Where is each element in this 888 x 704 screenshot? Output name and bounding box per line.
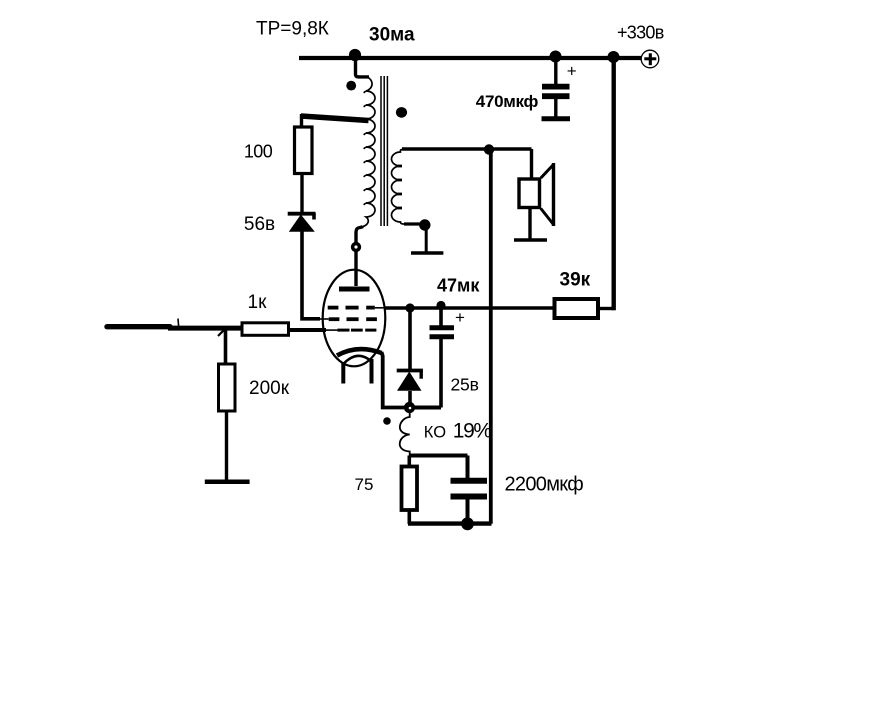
- ground below 470uF: [542, 116, 571, 121]
- wire secondary top to speaker: [402, 147, 532, 150]
- resistor 75: [402, 467, 418, 511]
- wire junction to 47uF bottom: [410, 406, 442, 410]
- tube heater legs: [341, 362, 345, 384]
- wire bottom rail: [408, 521, 492, 525]
- capacitor 470uF: [542, 57, 570, 117]
- transformer core: [380, 76, 382, 226]
- wire long vertical right: [489, 150, 493, 524]
- tube V1 envelope: [323, 270, 386, 367]
- zener diode 25v: [397, 308, 423, 403]
- resistor 1k: [242, 323, 289, 336]
- wire thin lead 1k to row3: [325, 329, 337, 331]
- node junction zener 25v: [405, 303, 414, 312]
- svg-text:+: +: [567, 62, 577, 81]
- tube heater arch: [343, 356, 371, 364]
- svg-text:39к: 39к: [560, 270, 591, 291]
- wire top rail +330v: [299, 56, 642, 60]
- node junction rail/39k branch: [608, 51, 620, 63]
- svg-text:200к: 200к: [249, 378, 290, 399]
- svg-text:+330в: +330в: [617, 23, 664, 43]
- transformer T1 secondary winding: [392, 150, 406, 225]
- node junction rail/470uF: [550, 51, 562, 63]
- wire down to 75: [407, 456, 411, 467]
- capacitor 47uF: [430, 308, 455, 408]
- svg-text:470мкф: 470мкф: [476, 92, 539, 111]
- node junction bottom: [461, 517, 474, 530]
- wire 75 to bottom: [407, 510, 411, 524]
- tube plate: [339, 287, 370, 292]
- tube grid row 1 dashes: [328, 306, 375, 310]
- svg-text:19%: 19%: [453, 420, 492, 443]
- wire zener down to grid wire: [302, 231, 320, 319]
- phase dot secondary: [396, 107, 407, 118]
- ground below 200k: [205, 479, 250, 484]
- wire input to 200k: [224, 328, 228, 364]
- zener diode 56v: [288, 213, 316, 232]
- arrow mark at junction: [218, 329, 225, 336]
- resistor 100: [295, 127, 313, 174]
- node junction secondary bottom: [419, 219, 430, 230]
- terminal +330v plus circle: [641, 50, 659, 68]
- speaker LS1: [519, 163, 554, 226]
- ground below speaker: [514, 238, 547, 242]
- node donut plate wire: [351, 242, 361, 252]
- wire thin lead 56v branch to row2: [318, 318, 329, 320]
- svg-text:75: 75: [355, 475, 374, 494]
- node junction 47uF: [436, 301, 445, 310]
- wire speaker to ground: [528, 209, 531, 240]
- phase dot KO: [383, 417, 391, 425]
- node junction speaker line: [484, 144, 494, 154]
- inductor KO coil: [400, 412, 410, 456]
- node junction rail/primary: [349, 49, 361, 61]
- wire rail to primary top: [356, 57, 370, 77]
- resistor 39k: [555, 299, 599, 318]
- node donut cathode junction: [404, 402, 415, 413]
- wire primary bottom to plate node: [356, 227, 363, 287]
- wire 100 to zener: [300, 174, 303, 213]
- wire 39k to +330v line: [598, 307, 614, 310]
- ground below secondary: [425, 225, 428, 252]
- svg-text:25в: 25в: [451, 375, 479, 395]
- wire top of 75/2200uF: [409, 454, 467, 458]
- wire 200k to ground: [225, 411, 228, 480]
- capacitor 2200uF: [451, 456, 488, 525]
- wire cathode output: [384, 306, 553, 309]
- wire secondary bottom: [404, 222, 422, 225]
- svg-text:КО: КО: [424, 423, 446, 441]
- wire thin lead row1 to output: [375, 307, 385, 309]
- tube cathode arc: [337, 349, 382, 355]
- secondary winding cusp ticks: [398, 165, 402, 210]
- svg-text:2200мкф: 2200мкф: [505, 474, 584, 496]
- svg-text:56в: 56в: [244, 214, 275, 235]
- svg-text:100: 100: [244, 142, 273, 162]
- input line: [107, 324, 170, 329]
- small tick on input line: [177, 319, 180, 327]
- svg-text:+: +: [455, 308, 465, 327]
- primary winding cusp ticks: [364, 91, 366, 205]
- phase dot primary: [346, 81, 356, 91]
- svg-text:47мк: 47мк: [437, 276, 480, 296]
- wire down to speaker: [530, 149, 533, 178]
- tube grid row 3 dashes: [337, 329, 376, 332]
- wire cathode down: [382, 352, 410, 408]
- resistor 200k: [219, 364, 236, 411]
- svg-text:30ма: 30ма: [369, 25, 415, 46]
- tube grid row 2 dashes: [329, 317, 377, 321]
- svg-text:ТР=9,8К: ТР=9,8К: [256, 19, 329, 40]
- transformer T1 primary winding: [363, 77, 375, 227]
- svg-text:1к: 1к: [248, 292, 268, 313]
- wire vertical +330v to 39k: [612, 57, 616, 310]
- thick tap wire to 100 resistor: [301, 116, 369, 121]
- wire 1k to grid: [289, 328, 327, 332]
